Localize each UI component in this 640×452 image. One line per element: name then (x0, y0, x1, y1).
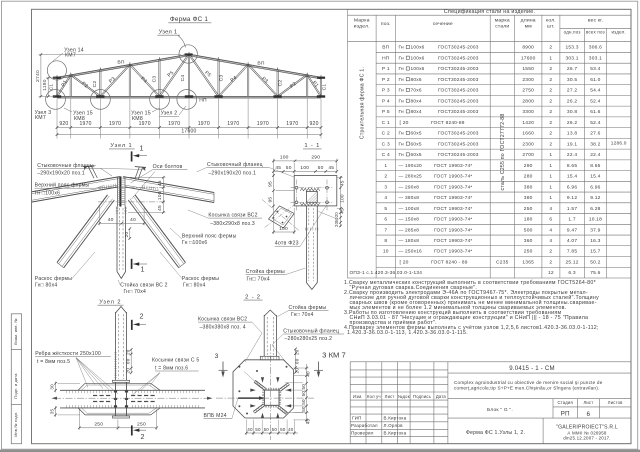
svg-text:8900: 8900 (522, 45, 534, 51)
svg-text:2700: 2700 (522, 152, 534, 158)
svg-text:60: 60 (125, 358, 130, 364)
svg-text:Узел 1: Узел 1 (110, 143, 132, 149)
svg-text:61.0: 61.0 (590, 77, 600, 83)
svg-text:4: 4 (549, 206, 552, 212)
svg-text:Узел 1: Узел 1 (159, 29, 178, 35)
svg-text:С 1: С 1 (382, 120, 390, 126)
svg-text:52.4: 52.4 (590, 120, 600, 126)
svg-text:100: 100 (157, 191, 163, 200)
svg-text:54.4: 54.4 (590, 88, 600, 94)
svg-text:ГОСТ 8240 - 89: ГОСТ 8240 - 89 (431, 260, 468, 266)
svg-text:длина: длина (521, 19, 536, 24)
svg-text:8: 8 (384, 238, 387, 244)
node circle Uzel 14 (47, 61, 66, 80)
left height dims 2740 1190 (40, 55, 42, 97)
svg-text:20: 20 (295, 368, 300, 374)
svg-text:1: 1 (384, 163, 387, 169)
svg-text:1: 1 (549, 174, 552, 180)
svg-text:2: 2 (140, 312, 144, 320)
svg-text:Ферма ФС 1.Узлы 1, 2.: Ферма ФС 1.Узлы 1, 2. (466, 430, 525, 436)
flange plate rect (1-1) (294, 176, 337, 206)
svg-text:15.4: 15.4 (567, 174, 577, 180)
svg-text:–280x280x25 поз.2: –280x280x25 поз.2 (285, 336, 333, 342)
svg-text:100: 100 (279, 226, 288, 232)
svg-text:КМ7: КМ7 (65, 52, 76, 58)
svg-text:Гн□ 70x4: Гн□ 70x4 (247, 277, 270, 283)
node circle Uzel 1 apex (179, 45, 197, 63)
svg-text:ГОСТ30245-2003: ГОСТ30245-2003 (438, 109, 479, 115)
svg-text:40: 40 (108, 217, 114, 223)
svg-text:10.18: 10.18 (589, 217, 602, 223)
svg-text:50,50: 50,50 (301, 384, 306, 397)
svg-text:1: 1 (549, 55, 552, 61)
svg-text:одн.поз: одн.поз (564, 30, 581, 35)
svg-text:360: 360 (524, 238, 533, 244)
svg-text:Р 5: Р 5 (382, 109, 390, 115)
svg-text:1550: 1550 (522, 66, 534, 72)
svg-text:70x6: 70x6 (411, 88, 422, 94)
svg-text:380: 380 (524, 195, 533, 201)
svg-text:ГОСТ 19903-74*: ГОСТ 19903-74* (434, 174, 473, 180)
svg-text:С2: С2 (278, 80, 284, 87)
svg-text:1365: 1365 (522, 260, 534, 266)
svg-text:15.7: 15.7 (590, 249, 600, 255)
vertical stoika member (Uzel 2) (116, 307, 127, 314)
svg-text:22.4: 22.4 (567, 152, 577, 158)
node circle Uzel 2 (177, 90, 197, 110)
svg-text:ГОСТ30245-2003: ГОСТ30245-2003 (438, 141, 479, 147)
svg-text:ВПБ М24: ВПБ М24 (204, 413, 227, 419)
dim 100 under gusset (274, 231, 295, 233)
svg-text:С2: С2 (92, 81, 98, 88)
svg-text:Раскос фермы: Раскос фермы (35, 276, 72, 282)
svg-text:45: 45 (275, 165, 281, 171)
dim 35 left (Uzel 2) (55, 406, 57, 417)
dim 20 60 20 (2-2) (295, 349, 297, 372)
svg-text:din25.12.2007 - 2017.: din25.12.2007 - 2017. (563, 436, 611, 441)
svg-text:40: 40 (130, 217, 136, 223)
chord hatch ticks bottom edge (66, 405, 68, 408)
svg-text:1420: 1420 (522, 120, 534, 126)
svg-text:Косынки связи С 5: Косынки связи С 5 (152, 358, 199, 364)
svg-text:303.1: 303.1 (565, 55, 578, 61)
svg-text:ГОСТ30245-2003: ГОСТ30245-2003 (438, 131, 479, 137)
svg-text:6: 6 (549, 217, 552, 223)
svg-text:1: 1 (140, 145, 144, 153)
svg-text:2: 2 (384, 174, 387, 180)
svg-text:ВП: ВП (257, 61, 265, 67)
svg-text:Узел 2: Узел 2 (161, 111, 178, 117)
svg-text:40: 40 (288, 427, 294, 432)
svg-text:Косынка связи ВС2: Косынка связи ВС2 (198, 317, 247, 323)
svg-text:КМ7: КМ7 (35, 115, 46, 121)
svg-text:Гн: Гн (399, 141, 405, 147)
svg-text:380: 380 (524, 184, 533, 190)
svg-text:9.0415 - 1 - СМ: 9.0415 - 1 - СМ (509, 365, 555, 372)
svg-text:45: 45 (340, 180, 346, 186)
top chord VP left (57, 54, 189, 77)
chord centerline dash-dot with end arrows (54, 397, 210, 399)
svg-text:1970: 1970 (198, 121, 210, 127)
svg-text:45: 45 (340, 208, 346, 214)
svg-text:100: 100 (280, 155, 289, 161)
svg-text:20: 20 (334, 212, 339, 218)
splice bolts black marks (114, 391, 117, 393)
svg-text:издел.: издел. (612, 30, 626, 35)
svg-text:Листов: Листов (608, 400, 623, 405)
svg-text:2300: 2300 (522, 77, 534, 83)
svg-text:Инв.№ подл.: Инв.№ подл. (14, 411, 18, 436)
svg-text:С1: С1 (322, 84, 328, 91)
svg-text:сечение: сечение (433, 22, 453, 27)
svg-text:4: 4 (384, 195, 387, 201)
svg-text:30.8: 30.8 (567, 109, 577, 115)
svg-text:100x6: 100x6 (411, 55, 425, 61)
svg-text:поз.: поз. (381, 22, 391, 27)
bottom dimension line row2 total 17600 (57, 134, 321, 136)
svg-text:500: 500 (524, 227, 533, 233)
svg-text:1970: 1970 (286, 121, 298, 127)
svg-text:[ 20: [ 20 (400, 120, 409, 126)
weld ticks along chords near apex (99, 186, 101, 189)
bolt dots (2-2) (238, 366, 240, 368)
svg-text:— 180x8: — 180x8 (399, 238, 420, 244)
svg-text:30.5: 30.5 (567, 77, 577, 83)
weld ticks at member top (116, 206, 118, 208)
svg-text:4отв Ф23: 4отв Ф23 (275, 241, 299, 247)
svg-text:ГОСТ30245-2003: ГОСТ30245-2003 (438, 77, 479, 83)
svg-text:ГОСТ30245-2003: ГОСТ30245-2003 (438, 55, 479, 61)
svg-text:Гн: Гн (399, 88, 405, 94)
svg-text:9.47: 9.47 (567, 227, 577, 233)
svg-text:60x5: 60x5 (411, 131, 422, 137)
svg-text:НП: НП (382, 55, 390, 61)
svg-text:250: 250 (524, 249, 533, 255)
svg-text:вес кг.: вес кг. (588, 19, 603, 24)
weld ticks around tube edges (264, 388, 266, 390)
svg-text:— 250x16: — 250x16 (399, 249, 423, 255)
svg-text:С4: С4 (180, 75, 186, 82)
svg-text:60x5: 60x5 (411, 152, 422, 158)
svg-text:6.96: 6.96 (590, 184, 600, 190)
svg-text:50: 50 (318, 165, 324, 171)
svg-text:С235: С235 (496, 260, 509, 266)
svg-text:1970: 1970 (227, 121, 239, 127)
svg-text:–290x190x20 поз.1: –290x190x20 поз.1 (37, 170, 85, 176)
section mark 2 bottom (131, 425, 133, 435)
svg-text:20: 20 (125, 349, 130, 355)
bottom dim chain 40 50 50 50 50 40 (2-2) (246, 432, 298, 434)
dim 20 60 20 (Uzel 2) (130, 349, 132, 372)
svg-text:Гн □100x6: Гн □100x6 (182, 240, 208, 246)
svg-text:20: 20 (295, 349, 300, 355)
right dim chain 40 50x4 45 (2-2) (306, 364, 308, 424)
svg-text:40: 40 (247, 427, 253, 432)
node circle Uzel 15 a (91, 90, 111, 110)
svg-text:t = 8мм поз.6: t = 8мм поз.6 (155, 365, 188, 371)
svg-text:Р 2: Р 2 (382, 77, 390, 83)
svg-text:ГОСТ 19903-74*: ГОСТ 19903-74* (434, 249, 473, 255)
svg-text:12: 12 (548, 270, 554, 276)
svg-text:С 4: С 4 (382, 152, 390, 158)
svg-text:61.6: 61.6 (590, 109, 600, 115)
svg-text:Р 1: Р 1 (382, 66, 390, 72)
specification table (348, 9, 632, 278)
svg-text:2: 2 (549, 109, 552, 115)
svg-text:20: 20 (124, 232, 130, 238)
svg-text:13.8: 13.8 (567, 131, 577, 137)
svg-text:comerţ,agricole,tip S+P+E mun.: comerţ,agricole,tip S+P+E mun.Chişinău,o… (454, 386, 599, 391)
svg-text:250: 250 (94, 421, 103, 427)
svg-text:2 - 2: 2 - 2 (245, 294, 261, 300)
svg-text:ГОСТ 19903-74*: ГОСТ 19903-74* (434, 227, 473, 233)
svg-text:Стойка фермы: Стойка фермы (289, 304, 327, 311)
svg-text:80x4: 80x4 (411, 98, 422, 104)
gusset diamond lower-left (1-1) (269, 206, 295, 228)
svg-text:Гн: Гн (399, 152, 405, 158)
svg-text:8.65: 8.65 (567, 163, 577, 169)
left dim 95 95 (272, 174, 275, 177)
svg-text:2740: 2740 (35, 70, 41, 82)
left stamp boxes column (11, 314, 21, 444)
svg-text:1: 1 (549, 184, 552, 190)
splice bold dashes near center (93, 395, 97, 396)
stoika member below plate (1-1) (305, 206, 307, 283)
svg-text:9.12: 9.12 (567, 195, 577, 201)
weld flag left of apex (83, 165, 94, 168)
svg-text:Лист: Лист (583, 400, 593, 405)
svg-text:Complex agroindustrial cu obie: Complex agroindustrial cu obiective de m… (454, 380, 603, 385)
chord hatch ticks top edge (66, 391, 68, 394)
svg-text:издел.: издел. (354, 25, 370, 30)
vertical member bottom arrow (117, 272, 126, 279)
svg-text:3: 3 (215, 353, 219, 360)
diagonal gusset bands X pattern (254, 382, 264, 390)
right vertical dims (1-1) (340, 176, 342, 227)
svg-text:Марка: Марка (354, 18, 370, 24)
svg-text:Гн □100x6: Гн □100x6 (35, 190, 61, 196)
centerlines (2-2) (216, 397, 314, 399)
svg-text:22.4: 22.4 (590, 152, 600, 158)
lower stiffener trapezoid (Uzel 2) (78, 408, 160, 415)
svg-text:45: 45 (157, 205, 163, 211)
svg-text:4: 4 (549, 227, 552, 233)
svg-text:52.4: 52.4 (590, 98, 600, 104)
svg-text:280: 280 (524, 174, 533, 180)
svg-text:ГИП: ГИП (352, 416, 362, 421)
svg-text:2: 2 (549, 120, 552, 126)
svg-text:Стойка фермы: Стойка фермы (246, 268, 285, 275)
svg-text:2: 2 (549, 77, 552, 83)
svg-text:[ 20: [ 20 (400, 260, 409, 266)
svg-text:— 150x8: — 150x8 (399, 217, 420, 223)
svg-text:3 КМ 7: 3 КМ 7 (322, 351, 346, 360)
svg-text:Р 4: Р 4 (382, 98, 390, 104)
svg-text:Гн□ 70x4: Гн□ 70x4 (291, 312, 314, 318)
svg-text:2: 2 (141, 433, 145, 441)
svg-text:2750: 2750 (522, 88, 534, 94)
svg-text:Стыковочные фланцы: Стыковочные фланцы (37, 163, 94, 169)
svg-text:Проверил: Проверил (351, 431, 374, 436)
svg-text:50: 50 (286, 165, 292, 171)
svg-text:920: 920 (59, 121, 68, 127)
svg-text:— 290x8: — 290x8 (399, 184, 420, 190)
svg-text:ГОСТ30245-2003: ГОСТ30245-2003 (438, 98, 479, 104)
svg-text:6.96: 6.96 (567, 184, 577, 190)
svg-text:1.7: 1.7 (568, 217, 575, 223)
svg-text:ГОСТ 8240-89: ГОСТ 8240-89 (431, 120, 465, 126)
svg-text:стали: стали (495, 25, 509, 30)
svg-text:50,50: 50,50 (301, 399, 306, 412)
page bottom edge shadow (0, 450, 640, 452)
svg-text:ГОСТ30245-2003: ГОСТ30245-2003 (438, 88, 479, 94)
svg-text:17600: 17600 (521, 55, 536, 61)
svg-text:Гн: Гн (399, 55, 405, 61)
svg-text:4: 4 (549, 238, 552, 244)
svg-text:Верхний пояс фермы: Верхний пояс фермы (35, 182, 90, 189)
weld flag right of apex (135, 166, 146, 169)
svg-text:Стадия: Стадия (557, 400, 573, 405)
svg-text:кол.: кол. (546, 19, 556, 24)
section mark 1 bottom (131, 259, 133, 269)
svg-text:153.3: 153.3 (565, 45, 578, 51)
svg-text:Гн: Гн (399, 109, 405, 115)
stoika crossing chord (Uzel 2) (115, 382, 117, 416)
weld zigzag above and below tube (300, 188, 319, 191)
chord tube cross-section hatched (1-1) (306, 191, 317, 202)
svg-text:марка: марка (495, 19, 510, 24)
svg-text:6.3: 6.3 (568, 270, 575, 276)
svg-text:–380x290x8 поз.3: –380x290x8 поз.3 (210, 221, 255, 227)
svg-text:45: 45 (306, 419, 311, 425)
svg-text:Р 3: Р 3 (382, 88, 390, 94)
flange bar at plate top (2-2) (260, 356, 279, 360)
svg-text:Гн: Гн (399, 98, 405, 104)
svg-text:Гн□ 70x4: Гн□ 70x4 (124, 289, 147, 295)
svg-text:4.07: 4.07 (567, 238, 577, 244)
svg-text:Узел 2: Узел 2 (99, 299, 121, 305)
svg-text:№док: №док (398, 394, 410, 399)
svg-text:ВП: ВП (117, 60, 125, 66)
svg-text:26.2: 26.2 (567, 120, 577, 126)
svg-text:ГОСТ30245-2003: ГОСТ30245-2003 (438, 152, 479, 158)
top dim row2 45 50 100 50 45 (274, 170, 337, 172)
svg-text:всех поз: всех поз (586, 30, 605, 35)
black node pads on top chord ends and apex (53, 77, 61, 79)
svg-text:ВП: ВП (382, 45, 389, 51)
svg-text:Кол уч: Кол уч (367, 394, 381, 399)
svg-text:ГОСТ 19903-74*: ГОСТ 19903-74* (434, 163, 473, 169)
svg-text:1970: 1970 (109, 121, 121, 127)
bottom dimension line row1 (57, 127, 321, 129)
svg-text:100: 100 (340, 194, 346, 203)
svg-text:ГОСТ 19903-74*: ГОСТ 19903-74* (434, 195, 473, 201)
svg-text:10: 10 (383, 249, 389, 255)
upper stiffener trapezoid (Uzel 2) (78, 383, 160, 390)
svg-text:НП: НП (199, 98, 207, 104)
svg-text:ГОСТ30245-2003: ГОСТ30245-2003 (438, 66, 479, 72)
svg-text:920: 920 (310, 121, 319, 127)
truss diagonals (raskosy) (58, 75, 72, 97)
svg-text:100: 100 (300, 165, 309, 171)
svg-text:С3: С3 (219, 75, 225, 82)
svg-text:Стойка связи ВС 2: Стойка связи ВС 2 (120, 282, 168, 289)
dim 40 40 below apex (100, 222, 145, 224)
svg-text:t = 8мм поз.5: t = 8мм поз.5 (37, 359, 70, 365)
svg-text:Взам. инв. №: Взам. инв. № (14, 318, 18, 344)
bolts and axes (1-1) (296, 180, 298, 211)
svg-text:А ММII № 026958: А ММII № 026958 (567, 430, 606, 435)
svg-text:— 190x20: — 190x20 (399, 163, 423, 169)
upper chord band right (Uzel 1) (123, 177, 214, 193)
svg-text:ГОСТ 19903-74*: ГОСТ 19903-74* (434, 238, 473, 244)
svg-text:27.6: 27.6 (590, 131, 600, 137)
svg-text:53.4: 53.4 (590, 66, 600, 72)
svg-text:50: 50 (264, 427, 270, 432)
svg-text:60x5: 60x5 (411, 141, 422, 147)
svg-text:Строительная ферма ФС 1.: Строительная ферма ФС 1. (360, 67, 366, 139)
svg-text:7: 7 (384, 227, 387, 233)
svg-text:15.4: 15.4 (590, 174, 600, 180)
svg-text:С1: С1 (49, 84, 55, 91)
svg-text:2: 2 (549, 88, 552, 94)
bottom flange plate (Uzel 2) (113, 416, 130, 418)
svg-text:3: 3 (384, 184, 387, 190)
svg-text:20: 20 (334, 221, 339, 227)
svg-text:290: 290 (311, 155, 320, 161)
bolt axis extension lines with arrows (2-2) (285, 382, 303, 384)
svg-text:37.9: 37.9 (590, 227, 600, 233)
svg-text:2: 2 (549, 66, 552, 72)
svg-text:РП: РП (561, 411, 570, 418)
node circle Uzel 3 (46, 90, 66, 110)
apex vertical splice flanges (119, 176, 121, 206)
section mark 3 right (2-2) (318, 362, 320, 375)
svg-text:100x6: 100x6 (411, 45, 425, 51)
bottom chord band (Uzel 2) (60, 389, 205, 391)
svg-text:3300: 3300 (522, 109, 534, 115)
svg-text:Подпись: Подпись (413, 394, 431, 399)
svg-text:В.Киртока: В.Киртока (384, 431, 407, 436)
top flange plate on chord (Uzel 2) (113, 380, 130, 382)
svg-text:26.7: 26.7 (567, 66, 577, 72)
svg-text:Ферма ФС 1: Ферма ФС 1 (170, 16, 209, 23)
svg-text:19.1: 19.1 (567, 141, 577, 147)
svg-text:1.57: 1.57 (567, 206, 577, 212)
svg-text:Ребра жёсткости 250x100: Ребра жёсткости 250x100 (35, 351, 101, 357)
svg-text:Дата: Дата (436, 394, 447, 399)
black node pads on bottom chord (53, 95, 61, 97)
svg-text:2: 2 (549, 141, 552, 147)
svg-text:Стыковочный фланец: Стыковочный фланец (283, 328, 339, 335)
svg-text:60: 60 (295, 358, 300, 364)
svg-text:95: 95 (267, 181, 273, 187)
svg-text:80x6: 80x6 (411, 77, 422, 83)
svg-text:290: 290 (524, 163, 533, 169)
svg-text:2: 2 (549, 260, 552, 266)
svg-text:80x4: 80x4 (411, 109, 422, 115)
dim 250 250 (Uzel 2) (79, 427, 156, 429)
svg-text:— 380x8: — 380x8 (399, 195, 420, 201)
leaders from rebra label (76, 358, 95, 385)
svg-text:ГОСТ 19903-74*: ГОСТ 19903-74* (434, 217, 473, 223)
svg-text:6.28: 6.28 (590, 206, 600, 212)
svg-text:5: 5 (384, 206, 387, 212)
svg-text:— 285x8: — 285x8 (399, 227, 420, 233)
weld ticks on stoika (114, 352, 117, 354)
svg-text:1.420.3-36.03.0-1-113, 1.420.3: 1.420.3-36.03.0-1-113, 1.420.3-36.03.0-1… (347, 330, 468, 336)
svg-text:250: 250 (137, 421, 146, 427)
